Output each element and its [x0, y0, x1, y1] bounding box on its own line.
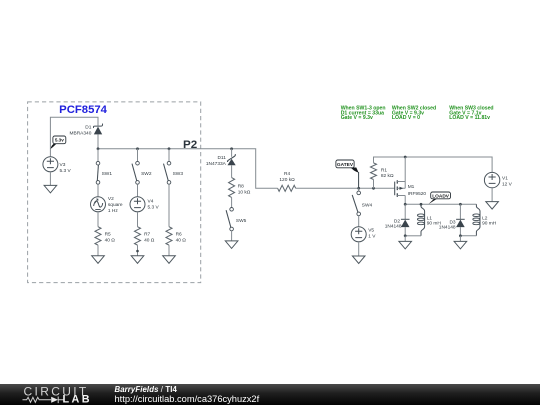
svg-text:V4: V4: [148, 199, 154, 205]
wire bottom node left pair: [405, 235, 421, 237]
svg-text:40 Ω: 40 Ω: [105, 238, 116, 244]
voltage source V3: [43, 157, 72, 174]
wire bottom node right pair: [460, 235, 476, 237]
voltage source V4: [130, 197, 160, 212]
ground SW5: [225, 241, 238, 249]
node P2 label: [183, 139, 197, 151]
ground left pair: [399, 241, 412, 249]
svg-text:M1: M1: [408, 184, 415, 190]
junction drain/rail: [404, 203, 407, 206]
svg-text:L2: L2: [482, 215, 488, 221]
svg-text:GATEV: GATEV: [337, 162, 354, 168]
svg-text:P2: P2: [183, 139, 197, 151]
svg-text:40 Ω: 40 Ω: [144, 238, 155, 244]
diode D3 1N4148: [439, 219, 465, 230]
svg-text:http://circuitlab.com/ca376cyh: http://circuitlab.com/ca376cyhuzx2f: [115, 394, 260, 404]
svg-text:LOAD V = 11.81v: LOAD V = 11.81v: [449, 115, 490, 121]
wire bus to SW1: [97, 149, 99, 162]
probe callout 5.3v: [51, 136, 66, 149]
svg-text:1N4733A: 1N4733A: [206, 161, 227, 167]
junction gate wire / R1: [372, 187, 375, 190]
svg-text:R4: R4: [284, 171, 290, 177]
resistor R4 120k: [278, 171, 296, 191]
svg-text:SW2: SW2: [141, 171, 152, 177]
ground R7: [131, 256, 144, 263]
junction rail/D3: [459, 203, 462, 206]
svg-text:R5: R5: [105, 232, 111, 238]
svg-text:1 V: 1 V: [368, 234, 376, 240]
junction gate wire / SW4: [357, 187, 360, 190]
svg-text:V5: V5: [368, 227, 374, 233]
ground V5: [352, 256, 365, 264]
annotation when SW1-3 open: [341, 106, 386, 122]
wire V1 to ground: [491, 188, 493, 202]
junction bus-D11: [230, 147, 233, 150]
svg-text:R1: R1: [381, 167, 387, 173]
probe callout LOADV: [428, 192, 450, 204]
wire D1 to bus: [97, 134, 99, 148]
wire R8 to SW5: [231, 198, 233, 208]
ground right pair: [454, 241, 467, 249]
svg-text:1N4148: 1N4148: [439, 225, 456, 231]
wire SW2 to V4: [137, 184, 139, 197]
svg-text:square: square: [108, 202, 123, 208]
wire R6 to ground: [168, 245, 170, 256]
svg-text:LOAD V = 0: LOAD V = 0: [392, 115, 420, 121]
wire to ground left pair: [404, 236, 406, 242]
svg-text:40 Ω: 40 Ω: [176, 238, 187, 244]
wire SW5 to ground: [231, 231, 233, 241]
wire R1 bottom lead: [373, 180, 375, 189]
resistor R1 82k: [371, 163, 394, 180]
switch SW1 (closed): [96, 161, 112, 184]
svg-text:D2: D2: [394, 219, 400, 225]
svg-text:5.3 V: 5.3 V: [60, 168, 72, 174]
ground R5: [92, 256, 105, 263]
svg-text:L1: L1: [427, 215, 433, 221]
svg-text:5.3v: 5.3v: [55, 138, 64, 143]
junction bus-D1: [97, 147, 100, 150]
junction bottom node left: [404, 234, 407, 237]
svg-text:V1: V1: [502, 176, 508, 182]
svg-text:1N4148: 1N4148: [385, 224, 402, 230]
footer bar: [0, 384, 540, 405]
footer CircuitLab logo: [23, 385, 92, 405]
wire V2 to R5: [97, 212, 99, 227]
source V2 square 1Hz: [91, 196, 123, 214]
probe callout GATEV: [336, 160, 359, 188]
resistor R7 40ohm: [135, 227, 155, 245]
wire V5 to ground: [358, 242, 360, 256]
junction bottom node right: [459, 234, 462, 237]
svg-text:R7: R7: [144, 232, 150, 238]
PCF8574 title: [59, 104, 108, 116]
resistor R5 40ohm: [95, 227, 115, 245]
svg-text:MBRA340: MBRA340: [70, 131, 92, 137]
wire D11 to R8: [231, 165, 233, 177]
wire rail to D2: [404, 204, 406, 219]
voltage source V5: [351, 227, 376, 242]
junction rail/L1: [420, 203, 423, 206]
wire SW3 to R6: [168, 184, 170, 227]
svg-text:SW5: SW5: [236, 218, 247, 224]
switch SW5 (open): [226, 208, 247, 231]
wire D2 to bottom node: [404, 227, 406, 236]
wire SW4 to V5: [358, 216, 360, 227]
wire rail to D3: [459, 204, 461, 219]
svg-text:12 V: 12 V: [502, 182, 513, 188]
switch SW4 (open): [352, 191, 372, 216]
diode D1 MBRA340 (schottky): [70, 124, 103, 137]
wire bus P2: [98, 149, 278, 189]
svg-text:V2: V2: [108, 196, 114, 202]
wire V3 top to D1: [50, 117, 98, 157]
wire R1 top rail to V1: [374, 157, 493, 172]
wire junction to SW4: [358, 188, 360, 191]
ground R6: [163, 256, 176, 263]
wire bus to D11: [231, 149, 233, 157]
wire R5 to ground: [97, 245, 99, 256]
wire M1 drain down: [404, 196, 406, 205]
wire V3 to ground: [49, 172, 51, 186]
zener diode D11 1N4733A: [206, 154, 236, 167]
svg-text:90 mH: 90 mH: [482, 221, 497, 227]
wire D3 to bottom node: [459, 227, 461, 236]
inductor L2 90mH: [473, 204, 497, 236]
wire R4 to gate: [296, 187, 395, 189]
svg-text:82 kΩ: 82 kΩ: [381, 173, 394, 179]
switch SW3 (open): [164, 161, 184, 184]
junction R7 ground: [136, 250, 139, 253]
svg-text:SW4: SW4: [362, 202, 373, 208]
annotation when SW2 closed: [392, 106, 436, 122]
svg-text:SW3: SW3: [173, 171, 184, 177]
ground V3: [44, 185, 57, 193]
svg-text:1 Hz: 1 Hz: [108, 208, 118, 214]
svg-text:IRF9520: IRF9520: [408, 191, 427, 197]
svg-text:D11: D11: [217, 155, 226, 161]
wire bus to SW3: [168, 149, 170, 162]
svg-text:10 kΩ: 10 kΩ: [238, 189, 251, 195]
svg-text:Gate V = 9.3v: Gate V = 9.3v: [341, 115, 373, 121]
junction bus-SW3: [168, 147, 171, 150]
diode D2 1N4148: [385, 219, 410, 230]
svg-text:5.3 V: 5.3 V: [148, 204, 160, 210]
svg-text:SW1: SW1: [102, 171, 113, 177]
svg-text:D3: D3: [449, 220, 455, 226]
footer title text: [115, 385, 260, 404]
wire M1 source up: [404, 157, 406, 182]
junction bus-SW2: [136, 147, 139, 150]
junction top rail / M1 source: [404, 156, 407, 159]
ground V1: [486, 202, 499, 210]
svg-text:V3: V3: [60, 162, 66, 168]
svg-text:LOADV: LOADV: [432, 193, 450, 199]
svg-text:LAB: LAB: [63, 393, 92, 405]
svg-text:R6: R6: [176, 232, 182, 238]
svg-text:D1: D1: [85, 124, 91, 130]
wire load rail: [405, 203, 476, 205]
svg-text:120 kΩ: 120 kΩ: [279, 177, 295, 183]
wire SW1 to V2: [97, 184, 99, 197]
PCF8574 dashed box: [28, 102, 201, 283]
annotation when SW3 closed: [449, 106, 493, 122]
svg-text:PCF8574: PCF8574: [59, 104, 108, 116]
resistor R8 10k: [229, 178, 251, 198]
inductor L1 90mH: [417, 204, 441, 236]
wire bus to SW2: [137, 149, 139, 162]
voltage source V1: [484, 172, 512, 187]
svg-text:R8: R8: [238, 184, 244, 190]
transistor M1 IRF9520 (PMOS): [395, 180, 427, 197]
wire R7 to ground: [137, 245, 139, 256]
wire to ground right pair: [459, 236, 461, 242]
wire V4 to R7: [137, 212, 139, 227]
resistor R6 40ohm: [166, 227, 186, 245]
switch SW2 (open): [132, 161, 152, 184]
svg-text:BarryFields / TI4: BarryFields / TI4: [115, 385, 178, 394]
